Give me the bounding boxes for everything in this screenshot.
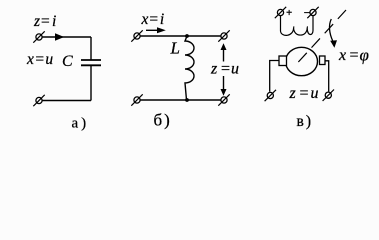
- svg-text:=: =: [349, 47, 360, 64]
- svg-text:L: L: [170, 39, 180, 58]
- svg-text:C: C: [62, 53, 73, 70]
- svg-text:x=u: x=u: [26, 51, 53, 68]
- svg-text:=: =: [220, 61, 231, 78]
- svg-text:в): в): [297, 113, 313, 130]
- svg-text:x: x: [338, 47, 346, 64]
- svg-text:z: z: [289, 85, 297, 102]
- svg-text:z: z: [210, 61, 218, 78]
- svg-text:б): б): [154, 110, 172, 129]
- svg-text:u: u: [311, 85, 319, 102]
- svg-text:z=i: z=i: [33, 13, 56, 30]
- svg-text:+: +: [286, 7, 292, 19]
- svg-text:=: =: [299, 85, 310, 102]
- svg-text:u: u: [231, 61, 239, 78]
- svg-text:а): а): [72, 115, 90, 131]
- svg-text:φ: φ: [360, 45, 369, 64]
- svg-text:x=i: x=i: [141, 11, 165, 28]
